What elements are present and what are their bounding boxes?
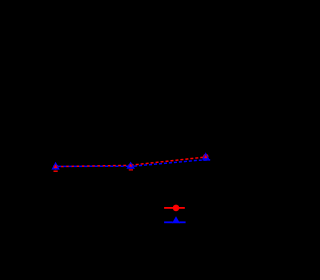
red circle marker P3 <box>203 154 208 159</box>
red circle marker P1 <box>53 164 58 169</box>
blue triangle marker P3 <box>203 154 208 159</box>
blue triangle marker P2 <box>127 163 134 169</box>
blue errorbar cap P3 <box>203 159 211 160</box>
legend red dashed line (right dash) <box>179 207 185 209</box>
red errorbar cap P2 <box>129 169 133 170</box>
blue triangle marker P1 <box>52 163 59 169</box>
legend blue dashed line (left dash) <box>164 221 173 223</box>
red circle marker P2 <box>128 163 133 168</box>
legend blue triangle marker <box>172 216 180 223</box>
blue errorbar cap P2 <box>128 167 134 168</box>
blue dashed data line segment P2-P3 <box>131 160 210 167</box>
red dashed data line segment P2-P3 <box>131 157 206 165</box>
legend blue dashed line (right dash) <box>179 221 185 223</box>
blue dashed data line segment P1-P2 <box>56 165 131 167</box>
legend red circle marker <box>173 205 180 212</box>
legend red dashed line (left dash) <box>164 207 173 209</box>
red errorbar cap P1 <box>54 171 58 172</box>
blue errorbar cap P1 <box>53 168 59 169</box>
red dashed data line segment P1-P2 <box>56 165 131 166</box>
